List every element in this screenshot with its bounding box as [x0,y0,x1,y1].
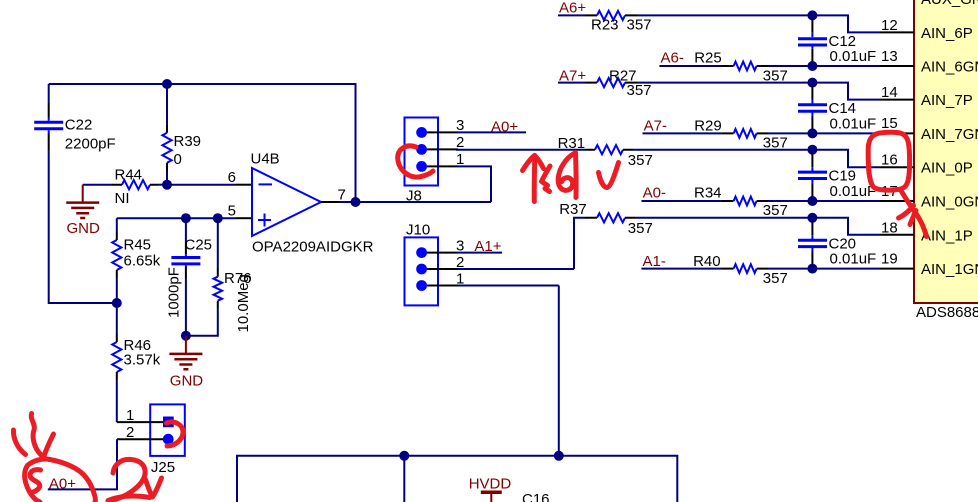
junction A6+/C12 [807,10,817,20]
capacitor C19 0.01uF [798,153,876,200]
pin 17 AIN_0GND [880,183,978,211]
svg-text:357: 357 [627,82,652,99]
wire R34 to pin 17 [768,200,880,202]
svg-text:ADS8688IDBT: ADS8688IDBT [916,304,978,321]
wire A0- to R34 [642,200,723,202]
svg-text:C16: C16 [522,491,550,502]
wire A1- to R40 [641,268,722,270]
svg-text:A1+: A1+ [474,238,501,255]
svg-text:R37: R37 [559,201,587,218]
svg-text:OPA2209AIDGKR: OPA2209AIDGKR [252,239,374,256]
wire R29 to pin 15 [768,132,880,134]
capacitor C25 1000pF [166,218,213,318]
svg-text:A0+: A0+ [49,476,76,493]
svg-text:R39: R39 [174,133,202,150]
resistor R76 10.0Meg [214,218,253,332]
resistor R29 357 [694,117,788,151]
svg-text:C25: C25 [185,237,213,254]
pin 13 AIN_6GND [880,48,978,76]
wire A6- to R25 [659,65,722,67]
wire output pin 7 [321,187,491,204]
svg-text:6: 6 [228,169,236,186]
svg-text:2: 2 [126,424,134,441]
red annotation: checkmark v [146,478,162,497]
svg-text:R45: R45 [124,237,152,254]
wire R27 to pin 14 [637,83,880,100]
svg-text:A6+: A6+ [559,0,586,17]
wire J10 pin1 riser [558,286,560,456]
svg-text:R34: R34 [694,184,722,201]
red annotation: doodle bottom left [31,414,43,458]
resistor R39 0 [162,84,201,171]
wire A7- to R29 [643,132,723,134]
svg-text:AUX_GND: AUX_GND [921,0,978,8]
wire C22 bottom to corner [49,150,117,303]
junction R37/C20 [807,213,817,223]
svg-text:A1-: A1- [643,253,666,270]
pin 19 AIN_1GND [880,250,978,278]
junction R39/R44/pin6 [162,180,172,190]
svg-text:13: 13 [881,48,898,65]
svg-text:GND: GND [170,373,204,390]
svg-text:1: 1 [456,270,464,287]
pin 18 AIN_1P [880,219,973,244]
wire A6+ to R23 [558,14,585,16]
svg-text:AIN_1GND: AIN_1GND [921,261,978,278]
svg-text:AIN_0GND: AIN_0GND [921,194,978,211]
svg-text:R31: R31 [558,135,586,152]
pin 12 AIN_6P [880,17,973,42]
svg-text:AIN_7GND: AIN_7GND [921,126,978,143]
J25 pin 1 lead [117,407,163,424]
capacitor C22 2200pF [34,103,115,153]
wire C22 top lead [48,84,50,103]
svg-text:357: 357 [627,17,652,34]
wire R46 to J25 pin1 [116,380,118,422]
svg-text:HVDD: HVDD [469,476,512,493]
svg-text:1: 1 [126,407,134,424]
svg-text:3: 3 [456,237,464,254]
svg-text:AIN_7P: AIN_7P [921,92,973,109]
resistor R45 6.65k [112,218,160,278]
svg-text:R44: R44 [115,167,143,184]
red annotation: up arrow at R31 [532,156,538,202]
svg-text:U4B: U4B [251,151,280,168]
svg-text:0: 0 [174,151,182,168]
svg-text:J10: J10 [406,222,430,239]
junction R31/C19 [807,145,817,155]
junction bottom/C16 [399,451,409,461]
J8 pin 2 lead [427,134,464,151]
red annotation: arrow to AIN_1P [902,192,927,237]
svg-text:12: 12 [881,17,898,34]
svg-text:R29: R29 [694,117,722,134]
resistor R23 357 [585,11,652,34]
svg-text:GND: GND [67,220,101,237]
junction C19/pin17 [807,196,817,206]
resistor R37 357 [559,201,653,237]
svg-text:R23: R23 [591,17,619,34]
wire output to J8 pin1 [458,166,491,202]
red annotation: letter glyph [573,153,579,198]
wire pin6 [167,169,252,186]
junction C20/pin19 [807,264,817,274]
svg-text:2: 2 [456,254,464,271]
svg-text:J25: J25 [151,459,175,476]
svg-text:5: 5 [228,203,236,220]
connector J10 [405,222,439,306]
pin 14 AIN_7P [880,84,973,109]
resistor R46 3.57k [112,303,160,380]
svg-text:AIN_6P: AIN_6P [921,25,973,42]
ground GND (left) [66,185,100,237]
svg-text:0.01uF: 0.01uF [830,48,877,65]
red annotation: loop around pin 16 [868,132,909,190]
wire R37 to pin 18 [635,218,880,235]
junction pin5/C25 [181,213,191,223]
svg-text:0.01uF: 0.01uF [830,251,877,268]
resistor R31 357 [558,135,653,169]
svg-text:7: 7 [338,187,346,204]
svg-text:AIN_0P: AIN_0P [921,160,973,177]
wire pin5 [117,203,252,220]
wire R39 bottom [166,171,168,185]
junction bottom/J10 riser [554,451,564,461]
svg-text:2200pF: 2200pF [65,136,116,153]
wire R31 to pin 16 [633,150,880,168]
svg-text:R40: R40 [693,253,721,270]
connector J25 [150,404,185,476]
svg-text:2: 2 [456,134,464,151]
J10 pin 3 lead [427,237,502,254]
svg-text:15: 15 [881,115,898,132]
red annotation: checkmark [599,163,619,188]
svg-text:14: 14 [881,84,898,101]
red annotation: percent mark [542,166,551,182]
op-amp U4B OPA2209AIDGKR [251,151,374,256]
power port HVDD [469,476,512,502]
junction output/feedback [351,197,361,207]
svg-text:NI: NI [115,190,130,207]
J8 pin 3 lead [427,117,526,134]
wire J8 pin2 to R31 [456,149,585,151]
pin 16 AIN_0P [880,152,973,177]
wire C25 bottom [185,278,187,336]
red annotation: big 2 [110,459,145,501]
ground GND (center) [169,336,203,390]
wire R25 to pin 13 [768,65,880,67]
svg-text:AIN_6GND: AIN_6GND [921,59,978,76]
svg-text:6.65k: 6.65k [124,253,161,270]
resistor R25 357 [694,50,788,85]
wire J25 pin2 to A0+ [48,439,117,489]
svg-text:R25: R25 [694,50,722,67]
svg-text:0.01uF: 0.01uF [830,183,877,200]
junction C12/pin13 [807,61,817,71]
capacitor C14 0.01uF [798,86,876,132]
svg-text:357: 357 [763,202,788,219]
resistor R34 357 [694,184,788,219]
IC U? ADS8688 block [914,0,978,303]
svg-text:1000pF: 1000pF [166,267,183,318]
junction C14/pin15 [807,128,817,138]
wire A7+ to R27 [558,82,585,84]
svg-text:C22: C22 [65,116,93,133]
svg-text:357: 357 [763,270,788,287]
capacitor C12 0.01uF [798,19,876,65]
svg-text:3: 3 [456,117,464,134]
junction pin5/R76 [213,213,223,223]
wire bottom bus [237,456,677,502]
connector J8 [405,118,439,205]
svg-text:10.0Meg: 10.0Meg [235,274,252,332]
wire J10 pin2 riser to R37 [574,218,585,269]
svg-text:A7-: A7- [644,117,667,134]
svg-text:3.57k: 3.57k [124,352,161,369]
resistor R27 357 [585,67,652,99]
wire R40 to pin 19 [768,268,880,270]
J10 pin 2 lead [427,254,574,271]
svg-text:357: 357 [628,152,653,169]
svg-text:A0-: A0- [643,184,666,201]
red annotation: loop at J8 pins [398,146,433,177]
pin 15 AIN_7GND [880,115,978,143]
svg-text:J8: J8 [406,188,422,205]
wire R23 to pin 12 [637,15,880,32]
capacitor C20 0.01uF [798,221,876,267]
J10 pin 1 lead [427,270,559,287]
svg-text:1: 1 [456,151,464,168]
junction A7+/C14 [807,78,817,88]
svg-text:357: 357 [628,220,653,237]
svg-text:19: 19 [881,250,898,267]
svg-text:18: 18 [881,219,898,236]
svg-text:16: 16 [881,152,898,169]
resistor R40 357 [693,253,788,287]
svg-text:0.01uF: 0.01uF [830,115,877,132]
wire feedback top [49,84,356,202]
svg-text:A0+: A0+ [491,118,518,135]
junction R45/R46/C22 [112,298,122,308]
junction R39 top [162,79,172,89]
junction C25/R76/GND [181,331,191,341]
resistor R44 NI [83,167,167,208]
wire C16 drop [403,456,405,502]
J25 pin 2 lead [117,424,163,441]
svg-text:A6-: A6- [661,50,684,67]
red annotation: hook at J25 pin2 [167,422,184,446]
wire R45 bottom [116,278,118,303]
wire R76 bottom to GND node [186,308,218,336]
J8 pin 1 lead [427,151,464,168]
